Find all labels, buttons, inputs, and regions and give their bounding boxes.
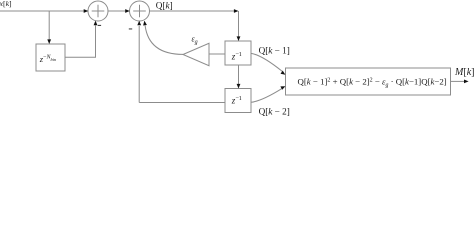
- wire x[k] input to summer 1: [0, 10, 84, 12]
- arrowhead output M[k]: [464, 80, 469, 84]
- arrowhead into delay box z1b top: [237, 84, 241, 89]
- svg-text:Q[k − 2]: Q[k − 2]: [259, 107, 290, 117]
- wire curve from gain output up to summer 2 bottom: [145, 26, 183, 55]
- wire curve Q[k-2] from z1b to metric block: [251, 89, 282, 103]
- arrowhead into summer 2 left: [125, 9, 130, 13]
- wire corner down to delay box z1a: [238, 11, 240, 37]
- delay box z1b: [225, 89, 251, 113]
- wire feedback bottom horizontal from delay box z1b: [139, 102, 225, 104]
- arrowhead into delay box z1a top: [237, 36, 241, 41]
- summer 1 plus cross: [92, 10, 105, 12]
- wire metric block output M[k]: [451, 80, 465, 82]
- wire junction drop to delay box: [48, 11, 50, 40]
- minus sign at summer 2: [129, 28, 132, 31]
- svg-text:x[k]: x[k]: [0, 0, 12, 8]
- svg-text:Q[k − 1]: Q[k − 1]: [259, 46, 290, 56]
- summer 1 circle: [88, 1, 108, 21]
- svg-text:Q[k − 1]2 + Q[k − 2]2 − εg · Q: Q[k − 1]2 + Q[k − 2]2 − εg · Q[k−1]Q[k−2…: [298, 76, 447, 88]
- wire curve Q[k-1] from z1a to metric block: [251, 53, 282, 71]
- wire triangle gain to delay box z1a: [209, 53, 225, 55]
- delay box z1a: [225, 41, 251, 65]
- arrowhead feedback into summer 2 bottom: [137, 21, 141, 26]
- arrowhead into summer 1 bottom: [94, 21, 98, 26]
- svg-text:M[k]: M[k]: [454, 67, 474, 78]
- summer 2 plus cross: [133, 10, 146, 12]
- metric block: [286, 68, 451, 95]
- minus sign at summer 1: [98, 24, 101, 27]
- wire feedback vertical from bottom to summer 2: [138, 26, 140, 103]
- wire Q[k] from summer 2 to corner: [149, 10, 234, 12]
- arrowhead Q[k-2] into metric block: [280, 86, 285, 90]
- arrowhead Q[k-1] into metric block: [281, 71, 286, 75]
- arrowhead into summer 1 left: [84, 9, 89, 13]
- gain triangle epsilon_g: [183, 43, 209, 65]
- svg-text:z−Nbin: z−Nbin: [39, 54, 57, 64]
- wire delay box z1a to delay box z1b: [238, 65, 240, 85]
- svg-text:z−1: z−1: [231, 95, 242, 105]
- svg-text:Q[k]: Q[k]: [156, 0, 173, 10]
- summer 2 circle: [130, 1, 150, 21]
- delay box z^-N: [36, 44, 65, 71]
- svg-text:εg: εg: [192, 35, 198, 46]
- wire summer 1 to summer 2: [108, 10, 126, 12]
- wire delay box output to summer 1 bottom: [65, 26, 96, 58]
- arrowhead into delay box z^-N top: [47, 39, 51, 44]
- arrowhead curve into summer 2 bottom: [143, 21, 147, 26]
- svg-text:z−1: z−1: [231, 51, 242, 61]
- arrowhead at Q[k] corner: [234, 9, 239, 13]
